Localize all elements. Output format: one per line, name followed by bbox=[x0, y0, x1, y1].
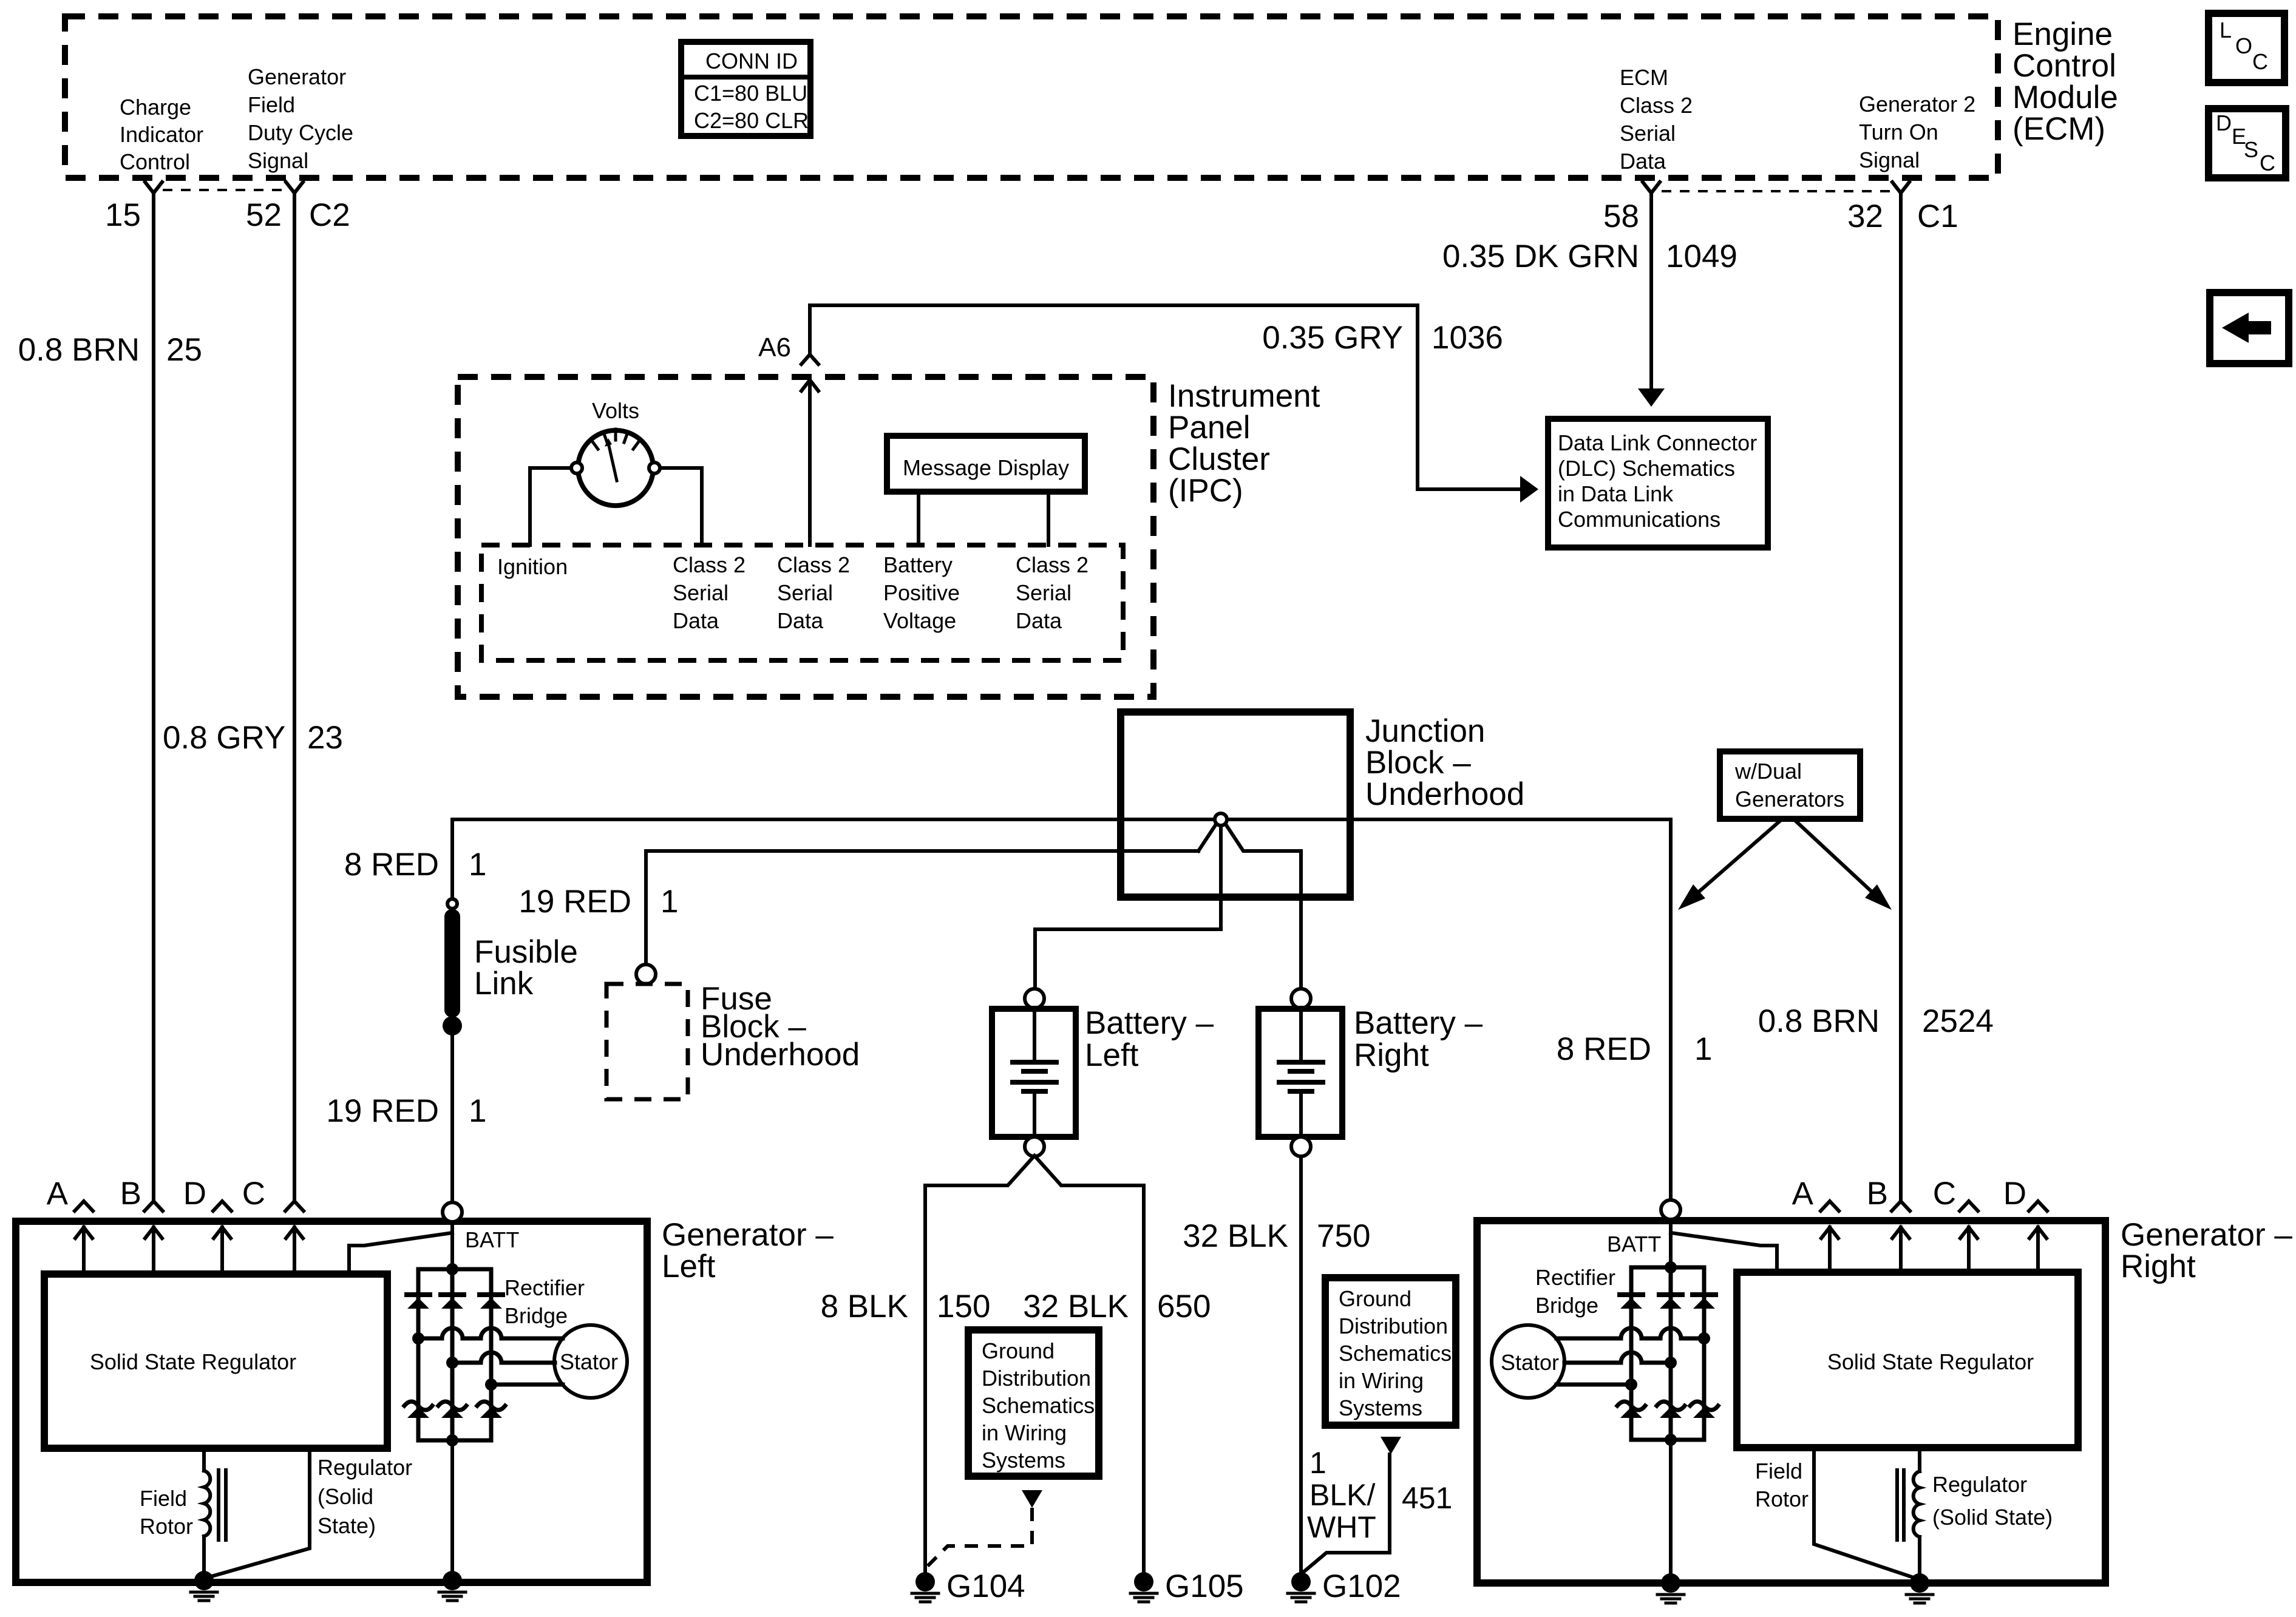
svg-text:Stator: Stator bbox=[560, 1349, 618, 1374]
svg-text:Schematics: Schematics bbox=[982, 1393, 1095, 1418]
svg-text:C: C bbox=[242, 1176, 265, 1212]
svg-text:Communications: Communications bbox=[1558, 507, 1720, 532]
svg-text:15: 15 bbox=[105, 197, 141, 233]
Generator - Left label bbox=[662, 1217, 834, 1284]
svg-text:Class 2: Class 2 bbox=[673, 552, 746, 577]
wire 8 RED drop to fusible link bbox=[450, 819, 454, 899]
svg-text:19 RED: 19 RED bbox=[518, 884, 631, 920]
svg-text:WHT: WHT bbox=[1307, 1510, 1376, 1544]
Regulator (Solid State) label (gen right) bbox=[1932, 1472, 2053, 1530]
IPC title bbox=[1168, 378, 1320, 509]
w/Dual arrow to right generator wire bbox=[1793, 819, 1892, 910]
w/Dual arrow to left generator wire bbox=[1678, 819, 1782, 910]
wire field rotor to ground (gen right) bbox=[1814, 1448, 1915, 1578]
svg-text:Regulator: Regulator bbox=[1932, 1472, 2027, 1497]
svg-text:A: A bbox=[47, 1176, 69, 1212]
wire message display class 2 feed bbox=[1047, 492, 1050, 545]
svg-text:Generators: Generators bbox=[1735, 787, 1844, 812]
fusible link label bbox=[474, 934, 578, 1002]
Regulator (Solid State) label (gen left) bbox=[318, 1455, 412, 1538]
svg-text:C1: C1 bbox=[1917, 198, 1958, 234]
pin A (gen right) bbox=[1792, 1176, 1839, 1212]
ground G105 bbox=[1130, 1568, 1244, 1604]
regulator coil (gen right) bbox=[1897, 1448, 1920, 1577]
wire label 32 BLK 750 bbox=[1183, 1218, 1370, 1254]
left ground distribution pointer bbox=[928, 1490, 1042, 1566]
svg-text:C1=80 BLU: C1=80 BLU bbox=[694, 81, 807, 106]
label Class 2 Serial Data (volts) bbox=[673, 552, 746, 633]
svg-text:w/Dual: w/Dual bbox=[1734, 759, 1802, 784]
Solid State Regulator box (right) bbox=[1737, 1272, 2078, 1448]
svg-text:CONN ID: CONN ID bbox=[705, 49, 798, 73]
wire rectifier to ground (gen right) bbox=[1669, 1440, 1673, 1577]
wire label 8 RED 1 (left) bbox=[344, 847, 487, 883]
svg-text:Field: Field bbox=[1755, 1459, 1802, 1483]
svg-text:Ignition: Ignition bbox=[497, 554, 568, 579]
wire 52 to generator-left pin C bbox=[293, 193, 296, 1201]
wire 58 (0.35 DK GRN 1049) with arrow to DLC bbox=[1638, 193, 1665, 407]
Battery - Left label bbox=[1085, 1005, 1214, 1073]
wire 32 to generator-right pin B bbox=[1899, 193, 1903, 1201]
pin C internal arrow (right) bbox=[1960, 1227, 1977, 1272]
pin D (gen left) bbox=[183, 1176, 231, 1212]
svg-text:Underhood: Underhood bbox=[701, 1037, 860, 1073]
pin C internal arrow bbox=[286, 1227, 303, 1274]
svg-text:ECM: ECM bbox=[1620, 65, 1668, 90]
svg-text:Class 2: Class 2 bbox=[1016, 552, 1089, 577]
Solid State Regulator box (left) bbox=[44, 1274, 387, 1448]
ground (gen right field) bbox=[1906, 1573, 1933, 1603]
Battery - Right label bbox=[1354, 1005, 1483, 1073]
svg-text:Block –: Block – bbox=[1365, 745, 1471, 781]
wire voltmeter ignition feed bbox=[530, 468, 571, 545]
connector C1 dashed link bbox=[1662, 190, 1890, 192]
pin 15 connector bbox=[145, 182, 162, 193]
junction node splice bbox=[1215, 813, 1227, 825]
svg-text:150: 150 bbox=[937, 1289, 990, 1324]
svg-text:Data: Data bbox=[673, 608, 719, 633]
battery right terminal bottom bbox=[1291, 1137, 1311, 1156]
svg-text:1: 1 bbox=[469, 1093, 486, 1129]
svg-text:Charge: Charge bbox=[120, 95, 191, 120]
battery left terminal top bbox=[1025, 989, 1044, 1008]
Fuse Block - Underhood box bbox=[606, 984, 688, 1099]
svg-text:23: 23 bbox=[307, 720, 343, 756]
svg-text:G102: G102 bbox=[1322, 1568, 1401, 1604]
svg-text:D: D bbox=[2003, 1176, 2026, 1212]
wire 32 BLK 750 to G102 bbox=[1299, 1156, 1303, 1573]
svg-text:Battery: Battery bbox=[883, 552, 953, 577]
pin A (gen left) bbox=[47, 1176, 93, 1212]
svg-text:Right: Right bbox=[2121, 1249, 2196, 1284]
wire BATT into rectifier (gen right) bbox=[1669, 1219, 1673, 1267]
DLC reference box bbox=[1548, 419, 1768, 547]
svg-text:Left: Left bbox=[1085, 1037, 1139, 1073]
svg-text:B: B bbox=[120, 1176, 141, 1212]
svg-text:Data: Data bbox=[1016, 608, 1062, 633]
svg-text:Rotor: Rotor bbox=[140, 1514, 193, 1539]
svg-text:0.35 DK GRN: 0.35 DK GRN bbox=[1442, 239, 1639, 274]
svg-text:(ECM): (ECM) bbox=[2012, 111, 2105, 147]
pin C (gen right) bbox=[1933, 1176, 1978, 1212]
pin 32 connector bbox=[1892, 182, 1909, 193]
ECM label ECM Class 2 Serial Data bbox=[1620, 65, 1693, 174]
ground G102 bbox=[1288, 1568, 1401, 1604]
svg-text:Positive: Positive bbox=[883, 580, 960, 605]
ECM title Engine Control Module (ECM) bbox=[2012, 16, 2118, 147]
svg-text:in Data Link: in Data Link bbox=[1558, 481, 1674, 506]
Field Rotor label (gen right) bbox=[1755, 1459, 1809, 1511]
svg-text:Field: Field bbox=[140, 1486, 187, 1511]
svg-text:D: D bbox=[183, 1176, 206, 1212]
wire 8 RED 1 to generator-right BATT bbox=[1669, 819, 1673, 1200]
svg-text:1: 1 bbox=[469, 847, 486, 883]
svg-text:B: B bbox=[1867, 1176, 1888, 1212]
svg-text:Systems: Systems bbox=[1339, 1395, 1422, 1420]
fusible link terminal bbox=[447, 899, 457, 909]
ground (gen left batt) bbox=[439, 1571, 466, 1601]
svg-text:Module: Module bbox=[2012, 80, 2118, 115]
svg-text:Serial: Serial bbox=[777, 580, 833, 605]
svg-text:L: L bbox=[2220, 18, 2232, 42]
wire label 32 BLK 650 bbox=[1023, 1289, 1211, 1324]
svg-text:Panel: Panel bbox=[1168, 410, 1251, 446]
Generator - Right label bbox=[2121, 1217, 2292, 1284]
fusible link F1 bbox=[444, 909, 460, 1017]
LOC legend box bbox=[2209, 13, 2284, 83]
svg-text:Control: Control bbox=[120, 149, 190, 174]
stator winding taps (gen right) bbox=[1557, 1328, 1710, 1391]
svg-text:O: O bbox=[2235, 33, 2252, 58]
stator (gen left) bbox=[554, 1325, 627, 1398]
wire label 1 BLK/WHT 451 bbox=[1307, 1446, 1452, 1544]
right Ground Distribution reference box bbox=[1325, 1278, 1456, 1425]
svg-text:2524: 2524 bbox=[1922, 1003, 1994, 1039]
wire BATT to regulator (gen left) bbox=[349, 1233, 452, 1274]
svg-text:(DLC) Schematics: (DLC) Schematics bbox=[1558, 456, 1735, 481]
svg-text:Schematics: Schematics bbox=[1339, 1341, 1452, 1366]
svg-text:Field: Field bbox=[248, 92, 295, 117]
Battery - Left B1 bbox=[992, 1009, 1076, 1137]
Battery - Right B2 bbox=[1258, 1009, 1342, 1137]
CONN ID table bbox=[681, 42, 810, 136]
svg-text:58: 58 bbox=[1603, 198, 1639, 234]
svg-text:32 BLK: 32 BLK bbox=[1183, 1218, 1288, 1254]
wire label 19 RED 1 (fuse block) bbox=[518, 884, 678, 920]
svg-text:Ground: Ground bbox=[982, 1338, 1055, 1363]
svg-text:32 BLK: 32 BLK bbox=[1023, 1289, 1129, 1324]
svg-text:Message Display: Message Display bbox=[903, 455, 1069, 480]
wire regulator to ground (gen left) bbox=[209, 1448, 310, 1577]
stator (gen right) bbox=[1492, 1325, 1564, 1398]
svg-text:Battery –: Battery – bbox=[1085, 1005, 1214, 1041]
svg-text:8 RED: 8 RED bbox=[1557, 1031, 1651, 1067]
DESC legend box bbox=[2209, 109, 2286, 178]
svg-text:Underhood: Underhood bbox=[1365, 776, 1524, 812]
Generator - Left G1 box bbox=[16, 1221, 647, 1582]
IPC class 2 serial data arrow bbox=[801, 380, 818, 545]
pin B internal arrow (right) bbox=[1892, 1227, 1909, 1272]
svg-text:Generator 2: Generator 2 bbox=[1859, 92, 1975, 117]
field rotor coil (gen left) bbox=[204, 1448, 226, 1576]
svg-text:Control: Control bbox=[2012, 48, 2116, 84]
svg-text:750: 750 bbox=[1317, 1218, 1370, 1254]
svg-text:Serial: Serial bbox=[673, 580, 729, 605]
svg-text:C: C bbox=[2260, 151, 2275, 175]
Generator - Right G2 box bbox=[1477, 1221, 2105, 1583]
battery right terminal top bbox=[1291, 989, 1311, 1008]
wire label 0.35 DK GRN 1049 bbox=[1442, 239, 1737, 274]
wire splice to battery left feed bbox=[1035, 825, 1221, 989]
svg-text:Bridge: Bridge bbox=[1535, 1293, 1598, 1318]
svg-text:Signal: Signal bbox=[1859, 147, 1920, 172]
svg-text:32: 32 bbox=[1847, 198, 1883, 234]
svg-text:Bridge: Bridge bbox=[504, 1303, 568, 1328]
svg-text:1: 1 bbox=[1694, 1031, 1712, 1067]
ground (gen right batt) bbox=[1657, 1573, 1684, 1603]
svg-text:8 BLK: 8 BLK bbox=[821, 1289, 908, 1324]
BATT terminal (gen right) bbox=[1661, 1200, 1680, 1219]
svg-text:Generator –: Generator – bbox=[2121, 1217, 2292, 1253]
svg-text:Instrument: Instrument bbox=[1168, 378, 1320, 414]
BATT terminal (gen left) bbox=[443, 1202, 462, 1222]
pin 52 connector bbox=[286, 182, 303, 193]
wire rectifier to ground (gen left) bbox=[450, 1440, 454, 1576]
connector C2 dashed link bbox=[163, 189, 285, 191]
svg-text:0.8 BRN: 0.8 BRN bbox=[1758, 1003, 1880, 1039]
wire 8 BLK 150 to G104 bbox=[923, 1185, 927, 1573]
ground G104 bbox=[912, 1568, 1025, 1604]
svg-text:G105: G105 bbox=[1165, 1568, 1244, 1604]
svg-text:(Solid State): (Solid State) bbox=[1932, 1505, 2053, 1530]
right ground distribution pointer bbox=[1303, 1437, 1401, 1572]
Message Display box bbox=[887, 436, 1085, 492]
svg-text:Generator –: Generator – bbox=[662, 1217, 834, 1253]
wire label 0.8 GRY 23 bbox=[163, 720, 343, 756]
svg-text:25: 25 bbox=[166, 332, 202, 368]
svg-text:Serial: Serial bbox=[1620, 121, 1676, 146]
svg-text:1: 1 bbox=[661, 884, 678, 920]
pin 52 / C2 labels bbox=[246, 197, 350, 233]
svg-text:Class 2: Class 2 bbox=[777, 552, 850, 577]
svg-text:Distribution: Distribution bbox=[982, 1366, 1091, 1391]
svg-text:Junction: Junction bbox=[1365, 713, 1485, 749]
battery left terminal bottom bbox=[1025, 1137, 1044, 1156]
svg-text:Engine: Engine bbox=[2012, 16, 2113, 52]
wire label 8 BLK 150 bbox=[821, 1289, 991, 1324]
svg-text:Rectifier: Rectifier bbox=[504, 1275, 585, 1300]
svg-text:C: C bbox=[1933, 1176, 1956, 1212]
svg-text:A: A bbox=[1792, 1176, 1814, 1212]
svg-text:1036: 1036 bbox=[1432, 320, 1503, 356]
svg-text:Signal: Signal bbox=[248, 148, 308, 173]
svg-text:G104: G104 bbox=[946, 1568, 1025, 1604]
wire label 19 RED 1 (lower) bbox=[326, 1093, 486, 1129]
ECM module U1 box bbox=[65, 16, 1998, 178]
svg-text:0.8 GRY: 0.8 GRY bbox=[163, 720, 285, 756]
ECM label Generator 2 Turn On Signal bbox=[1859, 92, 1975, 172]
wire BATT into rectifier (gen left) bbox=[450, 1222, 454, 1269]
svg-text:Turn On: Turn On bbox=[1859, 120, 1938, 144]
wire 0.35 GRY 1036 from A6 to DLC bbox=[810, 305, 1538, 503]
pin A internal arrow (right) bbox=[1821, 1227, 1838, 1272]
svg-text:0.35 GRY: 0.35 GRY bbox=[1262, 320, 1403, 356]
wire main battery bus (8 RED) bbox=[452, 818, 1671, 821]
fuse block terminal bbox=[636, 964, 656, 984]
rectifier bridge (gen right) bbox=[1617, 1261, 1718, 1446]
pin 32 / C1 labels bbox=[1847, 198, 1958, 234]
Junction Block - Underhood box bbox=[1121, 712, 1350, 897]
svg-text:19 RED: 19 RED bbox=[326, 1093, 439, 1129]
svg-text:Right: Right bbox=[1354, 1037, 1429, 1073]
pin D internal arrow (right) bbox=[2029, 1227, 2046, 1272]
svg-text:C2: C2 bbox=[309, 197, 350, 233]
svg-text:Generator: Generator bbox=[248, 64, 346, 89]
fusible link splice dot bbox=[443, 1016, 462, 1036]
svg-text:Rectifier: Rectifier bbox=[1535, 1265, 1615, 1290]
wire 19 RED 1 to generator-left BATT bbox=[450, 1026, 454, 1200]
svg-text:Battery –: Battery – bbox=[1354, 1005, 1483, 1041]
IPC box (Instrument Panel Cluster) bbox=[458, 377, 1153, 697]
pin B (gen right) bbox=[1867, 1176, 1910, 1212]
svg-text:Data: Data bbox=[777, 608, 824, 633]
svg-text:8 RED: 8 RED bbox=[344, 847, 439, 883]
ECM label Generator Field Duty Cycle Signal bbox=[248, 64, 353, 173]
svg-text:52: 52 bbox=[246, 197, 282, 233]
svg-text:Voltage: Voltage bbox=[883, 608, 956, 633]
svg-text:in Wiring: in Wiring bbox=[982, 1420, 1067, 1445]
wire label 8 RED 1 (right) bbox=[1557, 1031, 1713, 1067]
svg-text:C2=80 CLR: C2=80 CLR bbox=[694, 108, 809, 133]
svg-text:BATT: BATT bbox=[465, 1227, 519, 1252]
node A6 connector bbox=[758, 333, 818, 364]
pin D internal arrow bbox=[214, 1227, 231, 1274]
svg-text:State): State) bbox=[318, 1513, 376, 1538]
ECM label Charge Indicator Control bbox=[120, 95, 203, 174]
wire splice to battery right feed bbox=[1226, 824, 1301, 851]
svg-text:1049: 1049 bbox=[1666, 239, 1737, 274]
svg-text:Volts: Volts bbox=[592, 398, 639, 423]
wire voltmeter class 2 feed bbox=[660, 468, 702, 545]
wire 15 to generator-left pin B bbox=[152, 193, 155, 1201]
svg-text:Systems: Systems bbox=[982, 1448, 1065, 1473]
stator winding taps (gen left) bbox=[412, 1328, 563, 1391]
svg-text:A6: A6 bbox=[758, 333, 791, 362]
svg-text:0.8 BRN: 0.8 BRN bbox=[18, 332, 140, 368]
wire battery left ground split bbox=[925, 1156, 1144, 1185]
wire message display battery feed bbox=[917, 492, 920, 545]
left Ground Distribution reference box bbox=[968, 1330, 1099, 1476]
svg-text:Solid State Regulator: Solid State Regulator bbox=[90, 1349, 296, 1374]
wire BATT to regulator (gen right) bbox=[1671, 1233, 1777, 1272]
svg-text:(Solid: (Solid bbox=[318, 1484, 373, 1509]
svg-text:Duty Cycle: Duty Cycle bbox=[248, 120, 353, 145]
svg-text:in Wiring: in Wiring bbox=[1339, 1368, 1424, 1393]
label Class 2 Serial Data (message display) bbox=[1016, 552, 1089, 633]
svg-text:650: 650 bbox=[1157, 1289, 1211, 1324]
svg-text:Regulator: Regulator bbox=[318, 1455, 412, 1480]
Fuse Block label bbox=[701, 981, 860, 1073]
svg-text:Indicator: Indicator bbox=[120, 122, 203, 147]
Junction Block label bbox=[1365, 713, 1524, 812]
svg-text:BATT: BATT bbox=[1607, 1232, 1661, 1256]
Field Rotor label (gen left) bbox=[140, 1486, 193, 1539]
svg-text:1: 1 bbox=[1309, 1446, 1326, 1480]
svg-text:Left: Left bbox=[662, 1249, 716, 1284]
svg-text:Cluster: Cluster bbox=[1168, 441, 1270, 477]
w/Dual Generators tag box bbox=[1720, 751, 1860, 819]
svg-text:Fusible: Fusible bbox=[474, 934, 578, 970]
label Battery Positive Voltage bbox=[883, 552, 960, 633]
svg-text:Solid State Regulator: Solid State Regulator bbox=[1827, 1349, 2034, 1374]
svg-text:Data: Data bbox=[1620, 149, 1666, 174]
wire 19 RED to fuse block bbox=[646, 851, 1198, 964]
wire label 0.8 BRN 2524 bbox=[1758, 1003, 1994, 1039]
svg-text:Class 2: Class 2 bbox=[1620, 93, 1693, 118]
pin B (gen left) bbox=[120, 1176, 163, 1212]
svg-text:C: C bbox=[2252, 49, 2268, 74]
svg-text:BLK/: BLK/ bbox=[1309, 1478, 1376, 1512]
pin A internal arrow bbox=[75, 1227, 92, 1274]
Rectifier Bridge label (gen right) bbox=[1535, 1265, 1615, 1318]
svg-text:D: D bbox=[2216, 110, 2232, 135]
wire battery right drop bbox=[1299, 851, 1303, 989]
svg-text:S: S bbox=[2244, 137, 2258, 162]
svg-text:Ground: Ground bbox=[1339, 1286, 1411, 1311]
pin 58 connector bbox=[1643, 182, 1660, 193]
wire label 0.35 GRY 1036 bbox=[1262, 320, 1503, 356]
wire label 0.8 BRN 25 bbox=[18, 332, 202, 368]
svg-text:Distribution: Distribution bbox=[1339, 1314, 1448, 1338]
label Class 2 Serial Data (A6) bbox=[777, 552, 850, 633]
ground (gen left field) bbox=[191, 1571, 217, 1601]
svg-text:Stator: Stator bbox=[1501, 1350, 1559, 1375]
pin D (gen right) bbox=[2003, 1176, 2047, 1212]
svg-text:(IPC): (IPC) bbox=[1168, 473, 1243, 509]
wire splice to fuse block feed bbox=[1198, 824, 1216, 851]
svg-text:Serial: Serial bbox=[1016, 580, 1072, 605]
Rectifier Bridge label (gen left) bbox=[504, 1275, 585, 1328]
IPC internal connector strip (dashed) bbox=[481, 545, 1123, 660]
voltmeter gauge bbox=[571, 398, 660, 506]
svg-text:Data Link Connector: Data Link Connector bbox=[1558, 430, 1757, 455]
pin B internal arrow bbox=[145, 1227, 162, 1274]
back-arrow legend box bbox=[2210, 293, 2289, 364]
svg-text:451: 451 bbox=[1402, 1481, 1452, 1515]
svg-text:Link: Link bbox=[474, 966, 534, 1002]
pin C (gen left) bbox=[242, 1176, 304, 1212]
svg-text:Rotor: Rotor bbox=[1755, 1486, 1809, 1511]
rectifier bridge (gen left) bbox=[404, 1263, 505, 1446]
wire 32 BLK 650 to G105 bbox=[1142, 1185, 1146, 1573]
